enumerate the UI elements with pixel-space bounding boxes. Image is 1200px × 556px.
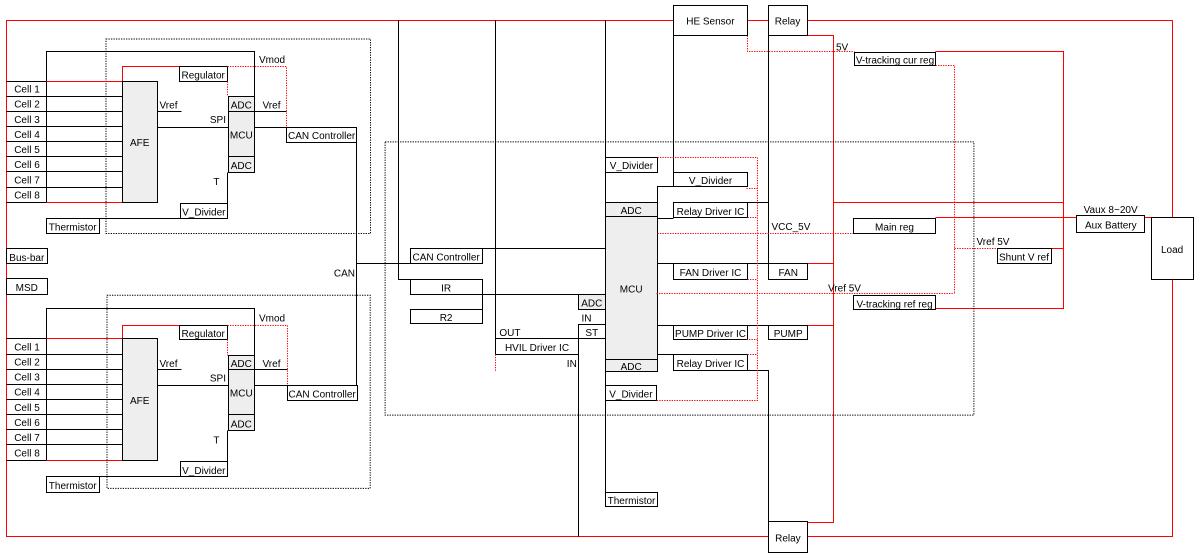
svg-text:V_Divider: V_Divider [689, 176, 733, 187]
component: V_Divider (HE sense) [674, 173, 748, 187]
svg-text:MCU: MCU [230, 131, 253, 142]
wire: red dotted Vref 5V line [657, 293, 955, 295]
IC: R2 [411, 310, 483, 325]
svg-text:SPI: SPI [210, 374, 226, 385]
svg-text:IN: IN [582, 314, 592, 325]
IC: master MCU core [606, 217, 658, 360]
svg-text:Cell 1: Cell 1 [14, 85, 40, 96]
IC: V-tracking cur reg [855, 53, 936, 67]
svg-text:ADC: ADC [231, 419, 252, 430]
svg-text:OUT: OUT [499, 328, 520, 339]
svg-text:Relay: Relay [775, 534, 801, 545]
wire: HVIL loop from top border to HVIL OUT [495, 21, 497, 339]
wire: module1 red HV- to AFE bottom [47, 202, 123, 204]
svg-text:VCC_5V: VCC_5V [772, 222, 811, 233]
component: Relay (bottom) [769, 522, 808, 553]
svg-text:Load: Load [1161, 245, 1183, 256]
svg-text:Bus-bar: Bus-bar [9, 253, 45, 264]
wire: 5V rail to right vertical [834, 202, 1064, 204]
wire: FAN to 5V rail [808, 263, 834, 265]
svg-text:ADC: ADC [621, 362, 642, 373]
svg-text:Cell 4: Cell 4 [14, 130, 40, 141]
wire: Main reg to Aux Battery to Load [936, 217, 1152, 219]
component: V_Divider (master top) [606, 158, 658, 173]
wire: module1 SPI bus AFE to MCU [158, 127, 229, 129]
wire: HE Sensor down to V_Divider [673, 36, 675, 173]
svg-text:CAN: CAN [334, 268, 355, 279]
svg-text:Cell 4: Cell 4 [14, 388, 40, 399]
svg-text:Cell 2: Cell 2 [14, 357, 40, 368]
wire: module2 Thermistor to V_Divider [100, 476, 181, 478]
wire: master CAN controller to MCU [483, 248, 606, 250]
IC: AFE (module1) [123, 82, 158, 203]
IC: FAN Driver IC [674, 264, 748, 280]
wire: PUMP Driver IC to PUMP [748, 325, 769, 327]
wire: top Relay down to FAN row [768, 36, 770, 264]
IC: MCU (module2) [229, 370, 255, 415]
svg-text:ADC: ADC [581, 299, 602, 310]
wire: PUMP to 5V rail [808, 325, 834, 327]
svg-text:ADC: ADC [231, 101, 252, 112]
wire: red dotted VCC_5V line to Main reg [658, 233, 855, 235]
svg-text:Cell 3: Cell 3 [14, 373, 40, 384]
svg-text:CAN Controller: CAN Controller [288, 390, 356, 401]
svg-text:Relay: Relay [775, 17, 801, 28]
wire: red dotted V-tracking cur reg down to Vref 5V line [936, 66, 955, 294]
svg-text:Cell 1: Cell 1 [14, 342, 40, 353]
svg-text:T: T [213, 436, 219, 447]
IC: ADC pin (master MCU left) [579, 295, 606, 310]
svg-text:Vaux 8~20V: Vaux 8~20V [1084, 205, 1138, 216]
svg-text:V_Divider: V_Divider [610, 161, 654, 172]
svg-text:Vref 5V: Vref 5V [977, 237, 1010, 248]
svg-text:ADC: ADC [621, 206, 642, 217]
wire: MCU to PUMP Driver IC [658, 325, 674, 327]
svg-text:CAN Controller: CAN Controller [412, 252, 480, 263]
component: Thermistor (master) [606, 493, 658, 507]
svg-text:Vref: Vref [263, 359, 281, 370]
wire: red dotted stub Relay Driver bottom [748, 354, 758, 356]
module 1 dotted boundary [106, 39, 371, 234]
svg-text:V_Divider: V_Divider [182, 207, 226, 218]
svg-text:Cell 8: Cell 8 [14, 448, 40, 459]
wire: module2 Vref stub from AFE [158, 369, 182, 371]
component: V_Divider (module2) [181, 462, 228, 477]
wire: Relay Driver IC to relay line [748, 202, 769, 204]
wire: HE sensor V_Divider to MCU [658, 187, 674, 203]
wire: module1 red AFE to Regulator [123, 67, 180, 82]
IC: ADC lower (module2) [229, 415, 255, 431]
master unit dotted boundary [385, 142, 974, 415]
wire: module2 red dotted Regulator to ADC [227, 340, 229, 356]
wire: red loop V-tracking cur reg to V-tracking ref reg via right vertical [936, 52, 1064, 309]
svg-text:Vmod: Vmod [259, 314, 285, 325]
svg-text:Vmod: Vmod [259, 55, 285, 66]
IC: master MCU ADC top [606, 203, 658, 218]
wire: module1 MCU to CAN Controller [255, 127, 287, 129]
component: HE Sensor [674, 6, 748, 36]
wire: module1 Vref stub from ADC [255, 111, 287, 113]
wire: module1 cell tap lines to AFE [7, 82, 123, 203]
wire: MCU down to V_Divider and Thermistor [605, 372, 607, 493]
wire: module1 red HV+ to AFE top [47, 81, 123, 83]
svg-text:Vref 5V: Vref 5V [828, 283, 861, 294]
IC: Main reg [854, 219, 936, 234]
svg-text:Vref: Vref [263, 101, 281, 112]
IC: V-tracking ref reg [854, 296, 936, 311]
wire: from top border to master MCU [605, 21, 607, 203]
svg-text:FAN Driver IC: FAN Driver IC [680, 268, 742, 279]
wire: IR to MCU [483, 294, 606, 296]
svg-text:PUMP Driver IC: PUMP Driver IC [675, 329, 746, 340]
component: V_Divider (master bottom) [606, 386, 657, 401]
svg-text:Vref: Vref [160, 359, 178, 370]
wire: FAN Driver IC to FAN [748, 263, 769, 265]
wire: Relay Driver IC bottom to bottom Relay [748, 371, 769, 523]
svg-text:HE Sensor: HE Sensor [686, 17, 735, 28]
svg-text:MCU: MCU [230, 389, 253, 400]
wire: module2 MCU to CAN Controller [255, 385, 288, 387]
svg-text:T: T [213, 177, 219, 188]
IC: ADC upper (module1) [229, 97, 255, 112]
IC: AFE (module2) [123, 339, 158, 461]
svg-text:Cell 5: Cell 5 [14, 145, 40, 156]
wire: red dotted to Shunt V ref [955, 248, 998, 250]
svg-text:Cell 6: Cell 6 [14, 418, 40, 429]
IC: Shunt V ref [998, 249, 1052, 264]
wire: module2 red AFE to Regulator [123, 326, 180, 339]
wire: red dotted stub FAN Driver [748, 279, 758, 281]
wire: HVIL return to bottom border [578, 325, 580, 537]
wire: module2 SPI bus AFE to MCU [158, 385, 229, 387]
svg-text:Thermistor: Thermistor [49, 481, 97, 492]
svg-text:Regulator: Regulator [182, 329, 226, 340]
IC: PUMP Driver IC [674, 326, 748, 341]
svg-text:AFE: AFE [130, 138, 150, 149]
IC: CAN Controller (module2) [288, 386, 358, 401]
svg-text:Relay Driver IC: Relay Driver IC [677, 207, 745, 218]
svg-text:V_Divider: V_Divider [609, 390, 653, 401]
component: Bus-bar [7, 249, 48, 264]
svg-text:V-tracking cur reg: V-tracking cur reg [856, 55, 934, 66]
svg-text:HVIL Driver IC: HVIL Driver IC [505, 343, 569, 354]
IC: HVIL Driver IC [496, 339, 579, 355]
component: MSD [7, 279, 48, 295]
wire: MCU to FAN Driver IC [658, 263, 674, 265]
svg-text:ADC: ADC [231, 359, 252, 370]
wire: module1 T sense ADC to V_Divider [227, 173, 229, 204]
svg-text:R2: R2 [440, 313, 453, 324]
svg-text:Cell 6: Cell 6 [14, 160, 40, 171]
wire: 5V red rail from top Relay down to bottom Relay [808, 36, 834, 523]
wire: module1 Thermistor to V_Divider [100, 218, 181, 220]
svg-text:Cell 7: Cell 7 [14, 433, 40, 444]
svg-text:Cell 8: Cell 8 [14, 191, 40, 202]
svg-text:Cell 7: Cell 7 [14, 175, 40, 186]
svg-text:CAN Controller: CAN Controller [288, 131, 356, 142]
wire: module1 Vref stub from AFE [158, 111, 182, 113]
IC: CAN Controller (module1) [287, 128, 357, 143]
svg-text:Shunt V ref: Shunt V ref [999, 253, 1049, 264]
svg-text:Regulator: Regulator [182, 70, 226, 81]
IC: MCU (module1) [229, 112, 255, 157]
component: Relay (top) [769, 6, 808, 36]
wire: module2 Vref stub from ADC [255, 369, 288, 371]
svg-text:Main reg: Main reg [875, 222, 914, 233]
wire: module2 cell column right edge [46, 339, 48, 461]
svg-text:FAN: FAN [778, 268, 797, 279]
IC: master MCU ADC bottom [606, 360, 658, 373]
svg-text:Relay Driver IC: Relay Driver IC [677, 359, 745, 370]
component: Aux Battery [1077, 216, 1145, 233]
wire: module1 red dotted Regulator to ADC [227, 82, 229, 97]
wire: module1 pack sense bus [47, 52, 255, 97]
wire: module1 cell column right edge [46, 82, 48, 203]
svg-text:PUMP: PUMP [774, 329, 803, 340]
svg-text:AFE: AFE [130, 396, 150, 407]
svg-text:Cell 5: Cell 5 [14, 403, 40, 414]
component: PUMP [769, 326, 808, 341]
wire: red dotted VCC rail around driver ICs [657, 158, 758, 401]
svg-text:IR: IR [441, 284, 451, 295]
IC: Regulator (module2) [180, 326, 228, 341]
wire: module2 red HV- to AFE bottom [47, 460, 123, 462]
wire: module2 cell tap lines to AFE [7, 339, 123, 461]
component: Load [1152, 218, 1194, 280]
svg-text:ADC: ADC [231, 161, 252, 172]
svg-text:Thermistor: Thermistor [49, 222, 97, 233]
wire: IR to R2 link [482, 295, 484, 310]
component: Thermistor (module1) [47, 219, 100, 234]
svg-text:V-tracking ref reg: V-tracking ref reg [857, 299, 933, 310]
wire: module1 red dotted Vmod to CAN controller [228, 67, 287, 128]
module 2 dotted boundary [107, 295, 370, 488]
wire: MCU to Relay Driver IC bottom [658, 354, 674, 356]
svg-text:IN: IN [567, 359, 577, 370]
wire: red dotted stub PUMP Driver [747, 339, 758, 341]
IC: CAN Controller (master) [411, 249, 483, 264]
svg-text:MSD: MSD [16, 283, 38, 294]
svg-text:Cell 2: Cell 2 [14, 100, 40, 111]
wire: red dotted HE Sensor to V-tracking cur reg [748, 36, 855, 52]
pin ST (master MCU left) [579, 325, 606, 340]
wire: module2 pack sense bus [47, 309, 255, 356]
component: Thermistor (module2) [47, 477, 100, 493]
svg-text:Vref: Vref [160, 101, 178, 112]
svg-text:MCU: MCU [620, 285, 643, 296]
component: FAN [769, 264, 808, 280]
wire: module2 red HV+ to AFE top [47, 338, 123, 340]
wire: red dotted stub Relay Driver top [748, 217, 758, 219]
wire: HV sense from top border to IR [399, 21, 411, 280]
wire: CAN bus vertical between module CAN controllers [356, 143, 358, 386]
svg-text:SPI: SPI [210, 115, 226, 126]
IC: IR [411, 280, 483, 295]
wire: red dotted stub below HVIL driver [495, 355, 497, 372]
IC: Relay Driver IC (top) [674, 203, 748, 218]
wire: CAN bus tap to master CAN controller [357, 263, 411, 265]
IC: ADC lower (module1) [229, 157, 255, 173]
svg-text:Aux Battery: Aux Battery [1085, 221, 1137, 232]
wire: MCU to Relay Driver IC [658, 218, 674, 220]
svg-text:V_Divider: V_Divider [182, 466, 226, 477]
wire: red dotted stub V_Divider HE [747, 188, 758, 190]
IC: Relay Driver IC (bottom) [674, 355, 748, 371]
wire: module2 T sense ADC to V_Divider [227, 431, 229, 462]
svg-text:ST: ST [585, 328, 598, 339]
IC: ADC upper (module2) [229, 356, 255, 370]
wire: module2 red dotted Vmod to CAN controller [228, 326, 288, 386]
svg-text:5V: 5V [836, 43, 849, 54]
svg-text:Cell 3: Cell 3 [14, 115, 40, 126]
svg-text:Thermistor: Thermistor [608, 496, 656, 507]
wire: Shunt V ref to right vertical [1052, 248, 1064, 250]
IC: Regulator (module1) [180, 67, 228, 82]
component: V_Divider (module1) [181, 204, 228, 219]
